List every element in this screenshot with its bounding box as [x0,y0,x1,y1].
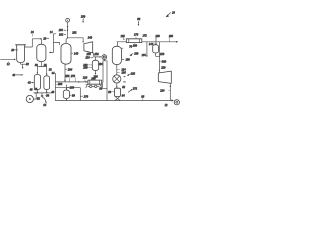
svg-text:52: 52 [37,98,40,101]
svg-text:12: 12 [165,104,168,107]
label 294 [98,63,103,66]
svg-text:240: 240 [88,37,93,40]
wire 262 branch to compressor 240 [68,38,84,41]
bottom pipe P2 [56,100,173,102]
drop D1 [146,42,148,56]
wire from T2 down [103,60,105,61]
instrument circle T2 [102,55,107,60]
arrowhead down [22,67,24,69]
valve circles under HX200 [88,85,99,87]
vessel 290 bottom stub [95,71,97,74]
label 280 [68,86,75,89]
label 24 [31,31,34,36]
arrowhead into column A [37,72,39,74]
feed wire 12 into vessel 20 [1,58,15,60]
label 210 [83,77,88,82]
label 254 [85,57,93,60]
wire 22 from vessel 20 bottom [21,63,27,65]
valve drop 52 [41,93,43,97]
cross valve below vessel 80 [115,97,120,102]
svg-text:296: 296 [93,76,98,79]
svg-text:82: 82 [122,86,125,89]
svg-text:54: 54 [43,104,46,107]
column A [34,75,40,90]
label 12 [7,62,10,67]
label 196 [117,71,126,74]
column B [44,76,50,90]
label 28 [43,37,49,40]
arrowhead on 140 drain [64,80,66,82]
label 42 with arrow [28,82,34,85]
arrowhead main pipe end [176,41,178,43]
vessel 150 [153,45,159,53]
Y strainer [100,85,103,87]
wire vessel190 top to main pipe [116,42,118,47]
svg-text:276: 276 [71,75,76,78]
node at column B drop [46,92,48,94]
svg-text:256: 256 [65,75,70,78]
instrument circle T3 [26,95,33,102]
svg-text:60: 60 [137,18,140,21]
arrowhead below 290 [95,73,97,75]
label 256 [65,75,70,82]
label 194 [117,68,126,71]
arrowhead into column B [46,74,48,76]
svg-text:170: 170 [134,34,139,37]
arrowhead into vessel 90 [66,88,67,90]
label 182 [59,33,66,36]
label 290 [83,67,92,70]
svg-text:100: 100 [134,53,139,56]
wire to T2 [94,56,100,58]
svg-text:300: 300 [162,60,167,63]
diagonal pointer 272 [128,88,137,93]
wire compressor 220 suction [169,83,171,100]
vessel 20 [16,45,26,63]
pipe drop right [106,61,108,101]
svg-text:80: 80 [108,91,111,94]
instrument circle T4 [174,100,179,105]
svg-text:14: 14 [50,31,53,34]
label 270 [80,95,88,98]
svg-text:90: 90 [72,94,75,97]
node junction on T1 wire [67,37,68,38]
drain vessel190 to pump [116,65,118,75]
main top pipe [117,41,127,43]
svg-text:204: 204 [68,68,73,71]
arrowhead left on header [34,92,36,94]
label 90 [70,94,76,97]
wire vessel30 bottom split to columns [37,62,46,75]
label 190 [169,35,174,42]
svg-text:84: 84 [122,95,125,98]
svg-text:140: 140 [74,52,79,55]
arrowhead on P1 right [86,81,88,83]
svg-text:196: 196 [121,71,126,74]
label 250 with stream arrow [81,15,86,23]
label 184 [59,29,67,32]
node at column A drop [37,92,39,94]
pointer label 100 [129,53,138,56]
vessel 140 [61,44,71,65]
label 20 [11,49,17,52]
vessel 90 bottom stub [65,99,67,101]
HX 170 [126,39,142,43]
svg-text:192: 192 [131,73,136,76]
arrowhead into vessel 30 side [49,52,51,54]
pipe 24 vessel20 to vessel30 [25,39,40,47]
arrowhead on T1 wire [67,26,69,28]
vessel 190 [112,46,121,64]
svg-text:48: 48 [51,91,54,94]
wire branch down from 22 [22,64,24,67]
svg-text:98: 98 [141,95,144,98]
label 140 [71,52,78,55]
vessel 80 [115,88,121,96]
arrowhead into T2 [100,56,102,58]
svg-text:270: 270 [84,95,89,98]
svg-text:46: 46 [30,88,33,91]
label 224 [160,89,170,92]
label 300 [159,60,166,63]
column bottoms header [34,90,52,93]
svg-text:280: 280 [70,86,75,89]
svg-text:210: 210 [83,77,88,80]
svg-text:22: 22 [26,63,29,66]
stub into vessel 30 dome [41,39,43,45]
arrowhead drain [45,102,47,104]
label 80 [108,91,114,94]
svg-text:184: 184 [59,29,64,32]
svg-text:220: 220 [161,66,166,69]
wire from T3 to header [33,93,36,99]
pipe P1 bottom header [56,81,88,83]
compressor 220 [158,71,171,83]
svg-text:262: 262 [72,32,77,35]
label 98 [141,95,144,100]
svg-text:20: 20 [11,49,14,52]
vessel 30 [37,44,46,61]
label 40 with arrow [12,74,23,77]
svg-text:298: 298 [58,83,63,86]
label 144 [149,43,155,46]
wire from compressor 240 down [92,53,95,57]
drain of vessel 140 [64,64,66,82]
svg-text:182: 182 [59,33,64,36]
vessel 90 [63,90,69,99]
svg-text:12: 12 [7,63,10,66]
svg-text:40: 40 [12,74,15,77]
tank 60 enclosure [56,88,81,101]
label 170 [134,34,139,39]
arrowhead into compressor 240 [82,41,84,43]
svg-text:252: 252 [94,53,99,56]
label 172 [142,34,147,37]
arrowhead up into 220 [170,85,172,87]
pipe drop left [103,60,107,62]
neck into vessel 150 [155,38,157,45]
svg-text:150: 150 [160,53,165,56]
arrowhead feed 12 [14,59,16,61]
HX 200 [88,80,102,84]
arrowhead D1 [146,55,148,57]
main pipe continue [142,41,177,43]
label 190r [122,48,131,61]
drain arc 54 [42,97,46,102]
label 150 [159,53,165,56]
vapor wire 14 [50,34,59,53]
svg-text:50: 50 [46,94,49,97]
svg-text:250: 250 [81,15,86,18]
label 164 [141,54,146,57]
arrowhead 2 on T1 wire [67,30,69,32]
label 160 [133,43,138,48]
label 298 [56,83,63,86]
tick mark 7 [86,85,88,88]
svg-text:190: 190 [125,59,130,62]
label 44 [52,72,56,75]
pipe 44 drop into tank 60 [55,74,57,88]
dangling arrow 60 [137,18,140,26]
arrowhead into T4 [172,100,174,102]
wire from T1 down to vessel 140 [66,22,68,42]
arrow 10 (figure pointer) [166,11,176,17]
svg-text:250: 250 [86,53,91,56]
svg-text:164: 164 [141,54,146,57]
label 192 pointer [124,73,136,82]
stub into vessel 90 [65,85,67,90]
instrument circle T1 [66,18,70,22]
svg-text:24: 24 [31,31,34,34]
label 32 [49,69,52,72]
pump outlet [116,83,118,88]
svg-text:42: 42 [28,82,31,85]
svg-text:224: 224 [160,89,165,92]
svg-text:10: 10 [172,11,175,14]
arrowhead into vessel 80 [116,87,118,89]
compressor 240 [84,42,93,53]
svg-text:160: 160 [133,44,138,47]
vessel 290 [92,60,98,70]
label 50 [45,94,49,97]
label 204 [65,68,72,71]
pump P1 [113,75,121,83]
wire HX200 outlet [102,82,107,88]
wire vessel150 bottom to pipe 300 [156,53,160,56]
svg-text:28: 28 [43,37,46,40]
arrowhead pipe 24 [40,38,42,40]
svg-text:290: 290 [83,67,88,70]
svg-text:172: 172 [142,34,147,37]
svg-text:272: 272 [133,88,138,91]
svg-text:294: 294 [98,63,103,66]
label 292 [83,64,92,67]
svg-text:254: 254 [85,57,90,60]
pipe 300 [158,42,160,73]
arrowhead on P1 [78,81,80,83]
label 276 [71,75,76,82]
label 162 [120,35,125,41]
